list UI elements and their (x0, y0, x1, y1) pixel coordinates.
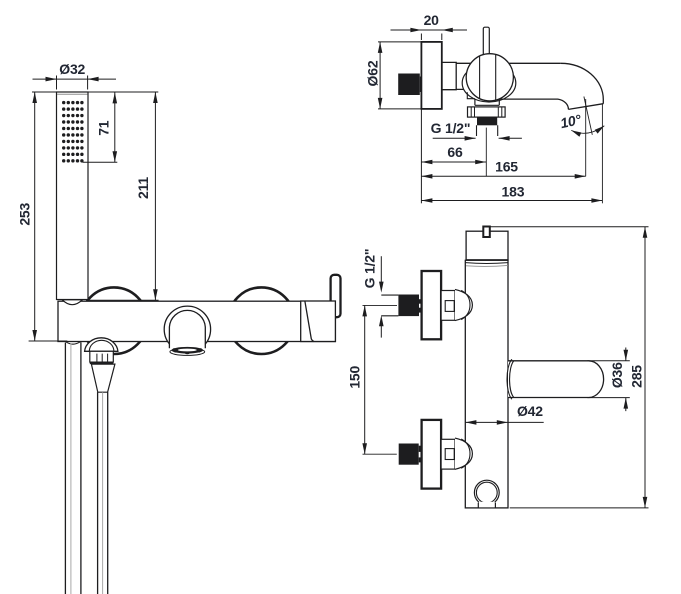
dim 10deg arc (571, 126, 604, 134)
hose connector ribbed ring (90, 351, 114, 362)
aerator outer ellipse (170, 348, 205, 355)
top union black thread (398, 295, 419, 317)
dim 66 arrows (421, 160, 486, 165)
dim 183 arrows (421, 198, 602, 203)
bottom union center extension (363, 453, 397, 455)
dim 253 arrows (32, 92, 37, 341)
valve housing chamfer (305, 301, 314, 341)
dim Ø36 lines (625, 348, 627, 412)
dim 253 bottom extension (29, 340, 68, 342)
svg-text:165: 165 (495, 159, 518, 175)
dim Ø62 line (379, 42, 381, 109)
ribbed ring dark band (90, 362, 114, 364)
dim 165 arrows (421, 174, 585, 179)
dim Ø42 arrows (465, 420, 507, 425)
outlet thread black (477, 117, 497, 125)
dim 71 arrows (113, 92, 118, 162)
top union bell (455, 289, 472, 320)
spout outlet cut face (568, 104, 603, 110)
top union center extension (363, 304, 398, 306)
top union nut inner (445, 301, 454, 312)
neck behind plate (442, 62, 456, 89)
spout bend inner (558, 99, 568, 109)
dim 150 line (364, 305, 366, 454)
outlet pipe (477, 125, 498, 136)
valve head circle (466, 54, 513, 101)
dim 285 line (644, 227, 646, 508)
dim Ø62 arrows (378, 42, 383, 109)
cartridge rosette ellipse (462, 64, 516, 102)
top wall union pipe (381, 295, 398, 316)
top union bell inner (461, 290, 470, 319)
valve head face lines (480, 55, 496, 100)
dim 10deg arc arrows (571, 126, 604, 137)
valve flange step left (467, 92, 475, 98)
dim 71 bottom extension (83, 161, 118, 163)
dim Ø32 arrows (46, 77, 99, 82)
top union step (419, 299, 422, 312)
spout tube top (side) (505, 62, 561, 64)
dim 20 extensions (421, 34, 441, 41)
dim G12 plan line lower (380, 320, 382, 337)
svg-text:Ø62: Ø62 (364, 60, 380, 86)
shower handle bottom dome (62, 300, 82, 305)
dim 10deg slanted line (584, 97, 592, 135)
dim 211 bottom extension (88, 299, 158, 301)
spout (top view) (508, 361, 604, 398)
spout root fillet outer (507, 359, 512, 399)
dim 71 line (114, 92, 116, 162)
holder dome outer (85, 338, 118, 351)
svg-text:10°: 10° (559, 111, 583, 131)
body column (465, 260, 508, 508)
ribbed ring ticks (97, 354, 108, 362)
aerator inner face (178, 349, 197, 352)
dim 20 line (391, 29, 468, 31)
svg-text:Ø36: Ø36 (609, 362, 625, 388)
hand shower stick (57, 92, 89, 300)
dim 66 line (421, 161, 486, 163)
wall plate (side) (421, 42, 441, 109)
spout tube bottom (side) (499, 98, 558, 100)
outlet center line (485, 128, 487, 176)
svg-text:20: 20 (424, 12, 440, 28)
svg-text:G 1/2": G 1/2" (362, 249, 378, 289)
svg-text:253: 253 (17, 203, 33, 226)
bottom union step (419, 446, 422, 463)
cap joint line (466, 262, 508, 265)
spray nozzle dots (62, 101, 84, 163)
spout tube (front) (169, 310, 205, 348)
bottom union escutcheon (422, 420, 442, 489)
svg-text:211: 211 (135, 177, 151, 199)
svg-text:183: 183 (502, 184, 525, 200)
valve housing over lever (301, 301, 336, 342)
bottom union nut (441, 439, 455, 469)
shower holder keyhole outer (474, 480, 499, 505)
bottom union bell inner (461, 439, 470, 468)
svg-text:285: 285 (629, 365, 645, 388)
hand shower cap line (57, 93, 88, 95)
faucet hose highlight (102, 392, 104, 594)
dim Ø62 extensions (378, 42, 421, 109)
dim 285 bottom extension (510, 507, 649, 509)
dim 183 right extension (601, 105, 603, 204)
aerator dark ring (172, 347, 204, 354)
bottom union black thread (399, 444, 419, 465)
top union escutcheon (422, 271, 442, 339)
outlet nut (468, 107, 506, 117)
dim 211 arrows (153, 92, 158, 300)
svg-text:150: 150 (346, 366, 362, 389)
spout root fillet inner (510, 361, 514, 398)
cap (valve housing top view) (466, 231, 508, 260)
aerator bottom notch (184, 353, 191, 354)
shower holder lip arc (66, 342, 81, 344)
dim G12 arrows (465, 136, 510, 141)
dim G12 plan line upper (380, 256, 382, 282)
dim 211 line (154, 92, 156, 300)
escutcheon rosette right (wall flange circle) (228, 287, 295, 354)
dim 285 arrows (643, 227, 648, 508)
inlet connector step (420, 77, 422, 93)
lever handle (front) (331, 275, 341, 317)
outlet nut facets (471, 107, 502, 117)
dim G12 plan arrows (379, 282, 384, 327)
mixer body bar (58, 301, 335, 341)
inlet connector black (398, 74, 420, 96)
spout bend outer (561, 63, 604, 103)
dim 165 line (421, 175, 585, 177)
shower holder keyhole inner (476, 482, 497, 503)
dim 253 line (34, 92, 36, 341)
body tube lines (456, 63, 508, 89)
top union nut (441, 291, 455, 321)
dim left common extension (420, 110, 422, 204)
dim top reference line (32, 91, 158, 93)
svg-text:G 1/2": G 1/2" (431, 120, 471, 136)
keyhole opening (479, 502, 495, 507)
shower hose from handle (65, 342, 81, 594)
dim 285 top extension (490, 226, 648, 228)
dim Ø32 extension lines (57, 76, 88, 90)
outlet transition (475, 99, 499, 106)
dim G12 line (433, 137, 522, 139)
dim 10deg extension line A (585, 99, 587, 176)
svg-text:71: 71 (96, 120, 112, 136)
svg-text:Ø32: Ø32 (59, 61, 85, 77)
handle stem (483, 27, 489, 57)
dim Ø32 line (33, 78, 117, 80)
svg-text:66: 66 (447, 144, 463, 160)
cap joint shadow line (466, 265, 508, 266)
spout bend circle (front) (164, 306, 210, 352)
faucet hose (98, 392, 108, 594)
dim Ø42 line (465, 421, 543, 423)
dim Ø36 extensions (587, 361, 629, 398)
dim 20 arrows (410, 28, 452, 33)
dim 183 line (421, 200, 602, 202)
shower hose highlight (70, 344, 72, 594)
dim 150 arrows (362, 305, 367, 454)
bottom union bell (455, 438, 472, 469)
bottom union nut inner (445, 449, 454, 460)
svg-text:Ø42: Ø42 (517, 403, 543, 419)
holder dome inner arc (89, 340, 114, 351)
dim Ø36 arrows (624, 350, 629, 409)
hose connector cone (91, 364, 115, 392)
escutcheon rosette left (wall flange circle) (81, 287, 148, 354)
lever end (top view) (483, 227, 490, 238)
